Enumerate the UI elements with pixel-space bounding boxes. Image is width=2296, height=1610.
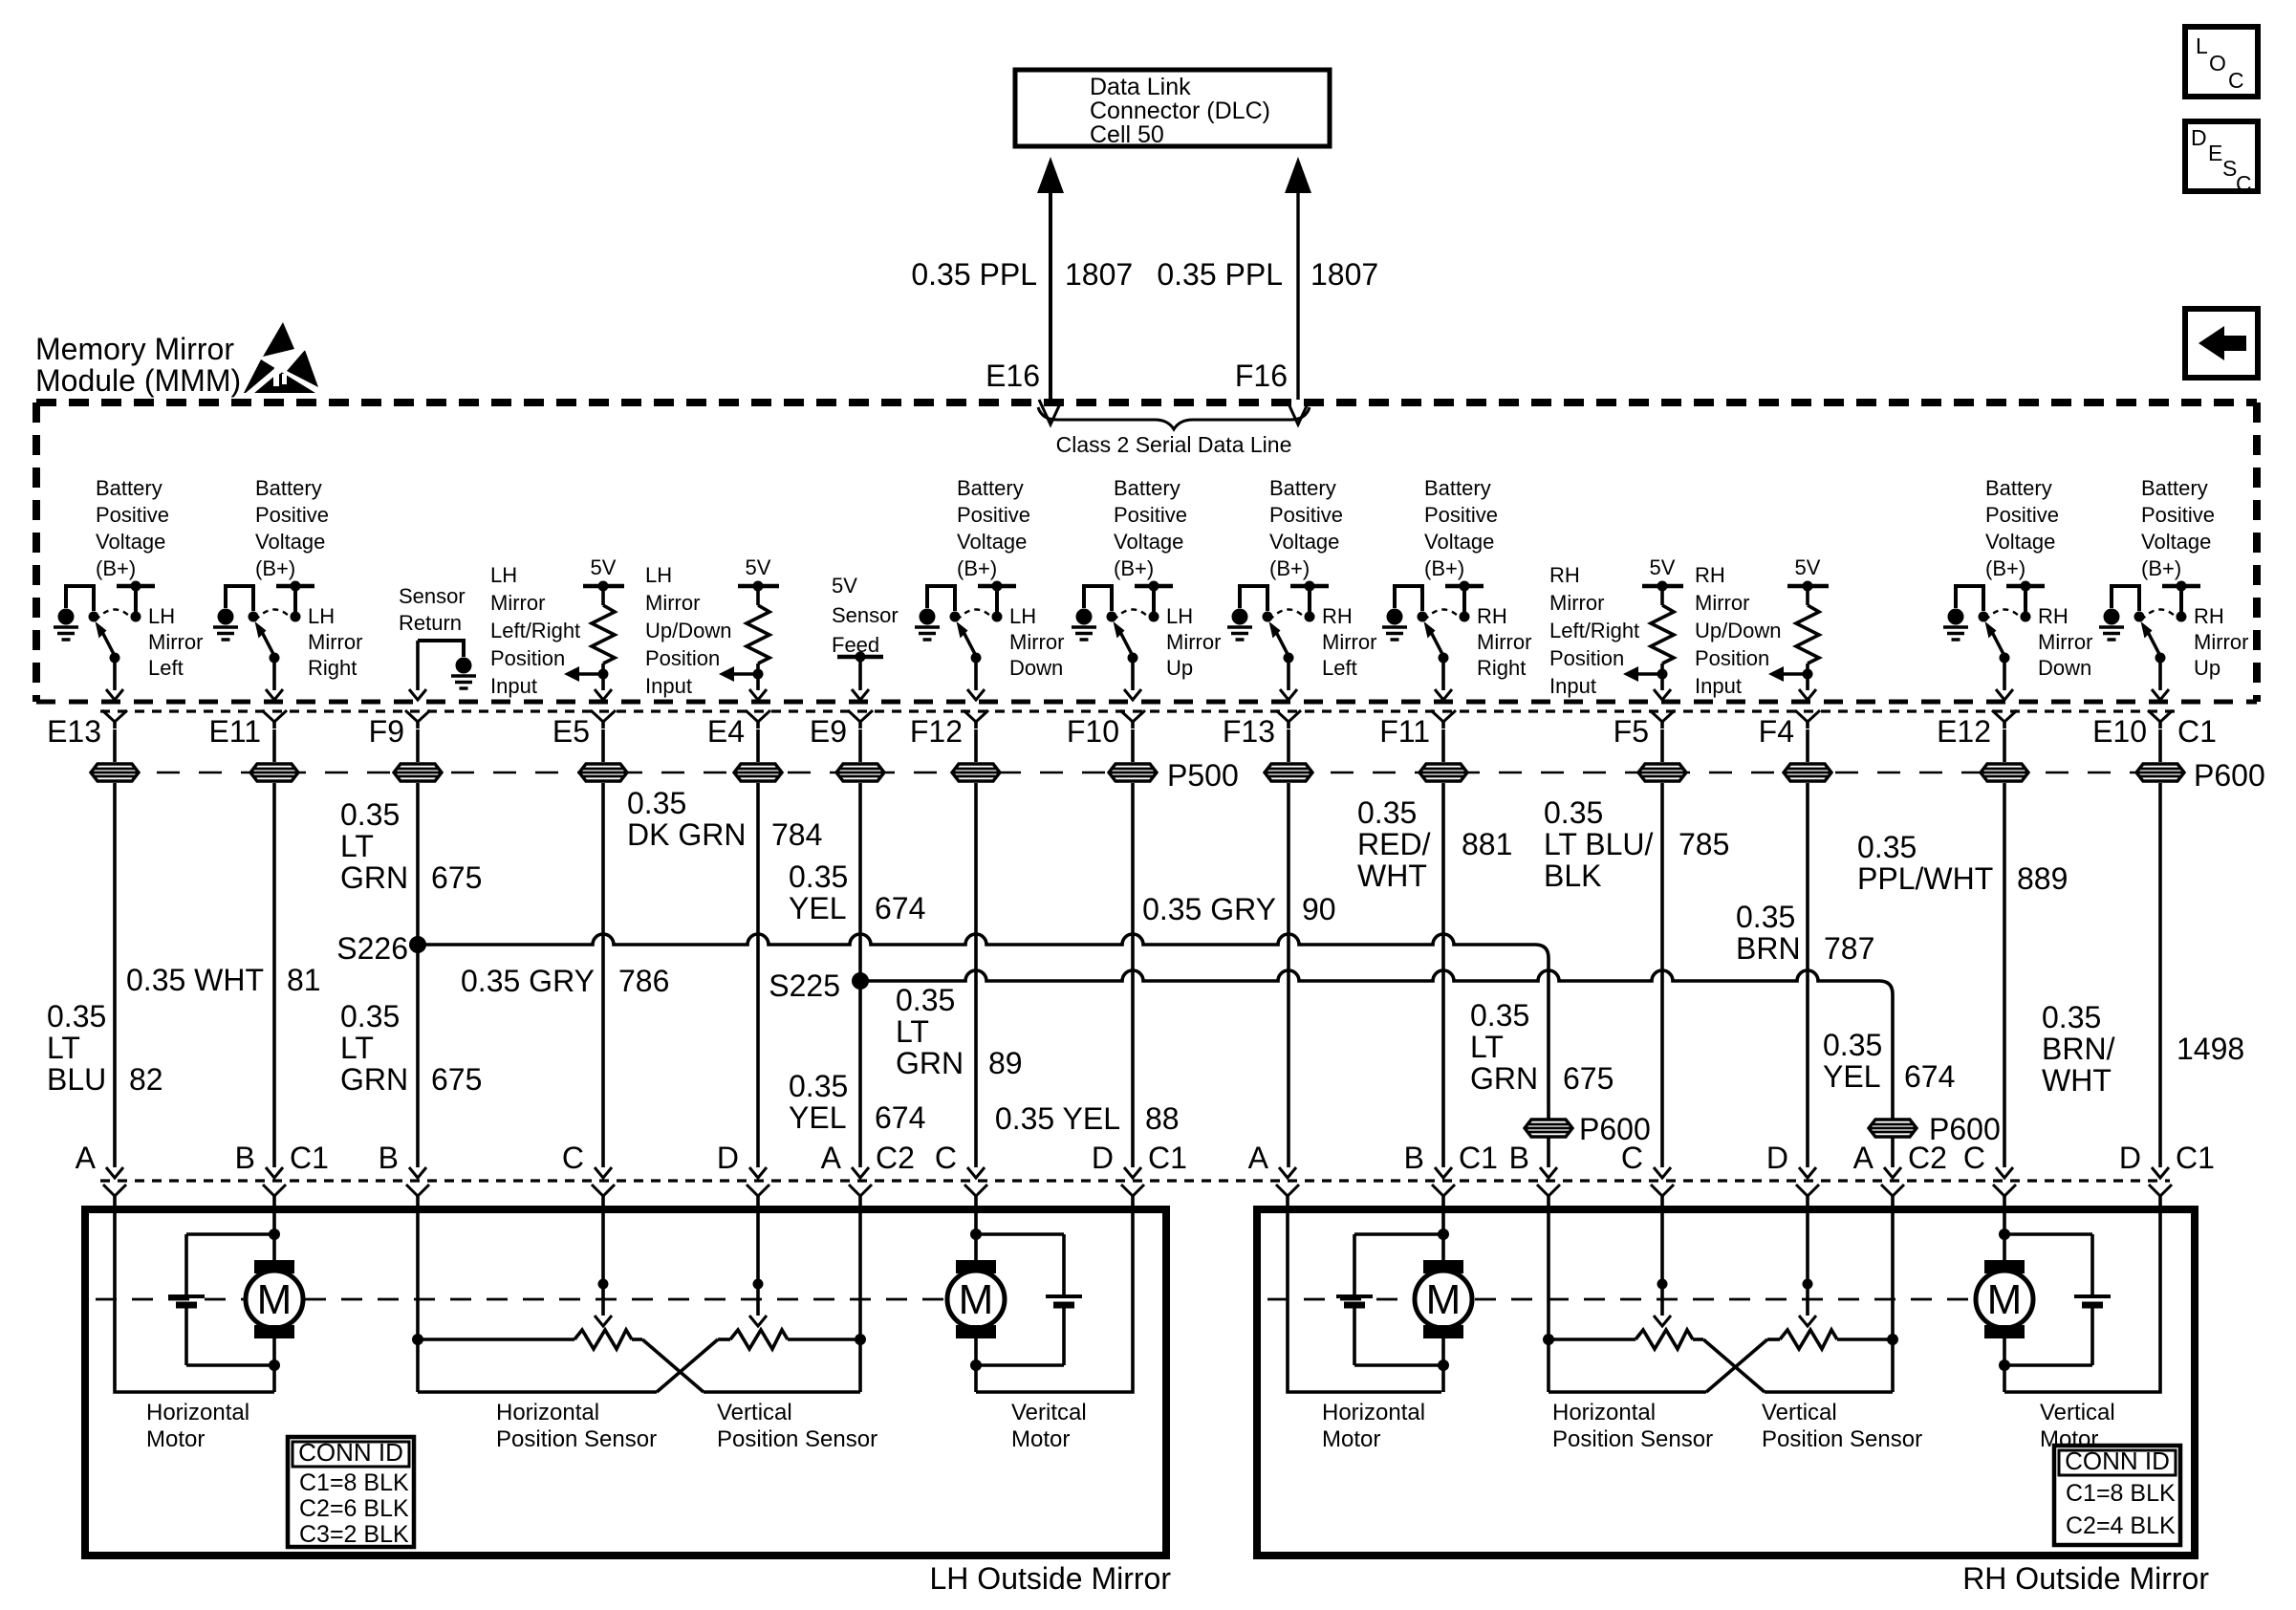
svg-text:0.35 GRY: 0.35 GRY [1142, 892, 1276, 926]
svg-text:WHT: WHT [1357, 859, 1427, 893]
svg-text:82: 82 [129, 1062, 163, 1097]
svg-text:LT: LT [340, 829, 374, 863]
svg-text:Class 2 Serial Data Line: Class 2 Serial Data Line [1056, 432, 1292, 457]
svg-text:L: L [2196, 33, 2208, 58]
svg-text:Input: Input [1695, 674, 1742, 698]
svg-text:Voltage: Voltage [1114, 530, 1183, 554]
splice S226 [409, 936, 426, 953]
svg-text:RH: RH [1322, 604, 1353, 628]
svg-text:Positive: Positive [1114, 503, 1187, 527]
inline connector at F13 [1287, 729, 1290, 762]
svg-text:D: D [2191, 125, 2207, 150]
LH vertical position sensor wiper (D) [756, 1210, 760, 1316]
wire E9 down (0.35 YEL 674) [858, 783, 862, 1167]
svg-text:F5: F5 [1614, 714, 1649, 749]
svg-text:Mirror: Mirror [1477, 630, 1531, 654]
svg-text:E11: E11 [208, 714, 261, 749]
wire F10 down (0.35 YEL 88) [1131, 783, 1135, 1167]
svg-text:5V: 5V [1795, 555, 1821, 579]
svg-text:Mirror: Mirror [2194, 630, 2248, 654]
svg-text:BRN: BRN [1736, 931, 1801, 966]
svg-text:LT: LT [47, 1031, 80, 1065]
svg-text:B: B [1404, 1141, 1424, 1175]
mirror pin B/C1 [266, 1167, 283, 1178]
LH horizontal motor wire B/C1 [272, 1210, 276, 1260]
svg-text:LH: LH [1166, 604, 1193, 628]
svg-text:5V: 5V [832, 574, 857, 598]
svg-text:Battery: Battery [1114, 476, 1180, 500]
inline connector at E5 [601, 729, 605, 762]
Class 2 Serial Data Line brace [1038, 407, 1310, 429]
svg-text:Position: Position [1549, 646, 1624, 670]
svg-text:Motor: Motor [1322, 1426, 1380, 1452]
svg-text:Positive: Positive [1424, 503, 1498, 527]
svg-text:D: D [1092, 1141, 1114, 1175]
svg-text:Battery: Battery [1424, 476, 1491, 500]
svg-text:Mirror: Mirror [1322, 630, 1376, 654]
svg-text:0.35 GRY: 0.35 GRY [461, 964, 595, 998]
svg-text:Vertical: Vertical [717, 1400, 792, 1425]
pin E11 fork [262, 710, 287, 722]
svg-text:YEL: YEL [1823, 1059, 1880, 1094]
svg-text:F9: F9 [369, 714, 404, 749]
svg-text:Motor: Motor [1011, 1426, 1070, 1452]
RH horizontal motor wire B/C1 [1441, 1210, 1445, 1260]
svg-text:Position Sensor: Position Sensor [496, 1426, 657, 1452]
RH vertical motor [1984, 1260, 2025, 1273]
pin E9 fork [848, 710, 873, 722]
svg-text:Vertical: Vertical [2040, 1400, 2115, 1425]
svg-text:LT BLU/: LT BLU/ [1544, 827, 1654, 861]
LH vertical motor wire C [974, 1210, 978, 1260]
svg-text:787: 787 [1824, 931, 1874, 966]
svg-text:C: C [2228, 68, 2244, 93]
mirror pin C [1654, 1167, 1671, 1178]
svg-text:E: E [2208, 141, 2222, 165]
MMM connector dashed line [100, 709, 2179, 712]
wire F13 down (0.35 GRY 90) [1287, 783, 1290, 1167]
svg-text:CONN ID: CONN ID [298, 1438, 403, 1467]
mirror pin B/C1 [1435, 1167, 1452, 1178]
svg-text:Horizontal: Horizontal [1322, 1400, 1425, 1425]
wire E12 down (0.35 PPL/WHT 889) [2003, 783, 2006, 1167]
svg-text:O: O [2209, 51, 2226, 76]
LOC icon box [2185, 27, 2258, 97]
svg-text:Input: Input [1549, 674, 1596, 698]
svg-text:C3=2 BLK: C3=2 BLK [299, 1521, 409, 1548]
svg-text:A: A [76, 1141, 97, 1175]
inline connector at F12 [974, 729, 978, 762]
svg-text:LH: LH [1009, 604, 1036, 628]
svg-text:0.35: 0.35 [1857, 830, 1917, 864]
svg-text:Left: Left [148, 656, 184, 680]
P600 connector on 675 wire [1525, 1120, 1572, 1137]
LH box dashed centerline [96, 1298, 244, 1301]
svg-text:Up: Up [1166, 656, 1193, 680]
wire E10 down (0.35 BRN/WHT 1498) [2158, 783, 2162, 1167]
svg-text:P600: P600 [2194, 758, 2265, 793]
svg-text:E13: E13 [47, 714, 101, 749]
svg-text:Voltage: Voltage [2141, 530, 2211, 554]
LH vertical motor [956, 1260, 996, 1273]
svg-text:E4: E4 [707, 714, 745, 749]
svg-text:0.35 PPL: 0.35 PPL [1157, 257, 1283, 292]
svg-text:Positive: Positive [957, 503, 1030, 527]
svg-text:Voltage: Voltage [957, 530, 1027, 554]
svg-text:(B+): (B+) [1985, 556, 2025, 580]
inline connector at F9 [416, 729, 420, 762]
svg-text:674: 674 [875, 1100, 925, 1135]
LH horizontal motor [254, 1260, 294, 1273]
svg-text:P500: P500 [1167, 758, 1239, 793]
svg-text:Memory Mirror: Memory Mirror [35, 332, 234, 366]
svg-text:(B+): (B+) [2141, 556, 2181, 580]
inline connector at E11 [272, 729, 276, 762]
wire 675 to RH mirror B (P600) [1547, 1109, 1550, 1167]
svg-text:RH: RH [1549, 563, 1580, 587]
RH CONN ID table [2054, 1446, 2180, 1545]
svg-text:M: M [959, 1276, 994, 1323]
inline connector at F11 [1441, 729, 1445, 762]
svg-text:0.35: 0.35 [1357, 795, 1417, 830]
RH horizontal position sensor wiper (C) [1660, 1210, 1664, 1316]
svg-text:Veritcal: Veritcal [1011, 1400, 1087, 1425]
svg-text:LT: LT [340, 1031, 374, 1065]
svg-text:C2=6 BLK: C2=6 BLK [299, 1495, 409, 1522]
svg-text:E5: E5 [552, 714, 590, 749]
svg-text:C1: C1 [2177, 714, 2217, 749]
svg-text:Up/Down: Up/Down [645, 619, 731, 642]
wire F9 down (0.35 LT GRN 675) [416, 783, 420, 1167]
svg-text:0.35: 0.35 [627, 786, 686, 820]
LH vertical motor circuit wire D [976, 1210, 1133, 1392]
svg-text:C2: C2 [876, 1141, 915, 1175]
RH horizontal motor battery [1336, 1295, 1373, 1298]
svg-text:E9: E9 [810, 714, 847, 749]
svg-text:0.35: 0.35 [1823, 1028, 1882, 1062]
svg-text:Left/Right: Left/Right [1549, 619, 1639, 642]
svg-text:LH Outside Mirror: LH Outside Mirror [930, 1561, 1172, 1596]
ESD symbol [263, 322, 294, 357]
svg-text:Mirror: Mirror [148, 630, 203, 654]
RH Outside Mirror box [1257, 1209, 2195, 1556]
LH Outside Mirror box [85, 1209, 1166, 1556]
svg-text:0.35 PPL: 0.35 PPL [911, 257, 1037, 292]
svg-text:RH Outside Mirror: RH Outside Mirror [1962, 1561, 2209, 1596]
pin E10 fork [2148, 710, 2173, 722]
wire E4 down (0.35 DK GRN 784) [756, 783, 760, 1167]
pin F12 fork [964, 710, 988, 722]
RH vertical motor circuit wire D/C1 [2004, 1210, 2160, 1392]
mirror pin B [409, 1167, 426, 1178]
svg-text:LH: LH [645, 563, 672, 587]
RH horizontal position sensor wire B [1547, 1210, 1550, 1392]
pin F9 fork [405, 710, 430, 722]
LH sensors baseline wiring [418, 1338, 574, 1341]
S226 bus wire to 675 [418, 934, 1549, 1109]
svg-text:RH: RH [1695, 563, 1725, 587]
svg-text:S226: S226 [336, 931, 408, 966]
svg-text:81: 81 [287, 963, 321, 997]
wire F11 down (0.35 RED/WHT 881) [1441, 783, 1445, 1167]
svg-text:GRN: GRN [896, 1046, 964, 1080]
svg-text:Motor: Motor [146, 1426, 205, 1452]
svg-text:Positive: Positive [1985, 503, 2059, 527]
svg-text:1498: 1498 [2177, 1032, 2244, 1066]
svg-text:F12: F12 [910, 714, 963, 749]
svg-text:Horizontal: Horizontal [496, 1400, 599, 1425]
inline connector at F5 [1660, 729, 1664, 762]
svg-text:E16: E16 [986, 359, 1040, 393]
P500/P600 connector dashed line [115, 772, 1133, 774]
svg-text:Data Link: Data Link [1090, 74, 1191, 100]
mirror pin A/C2 [852, 1167, 869, 1178]
svg-text:1807: 1807 [1065, 257, 1133, 292]
svg-text:Battery: Battery [2141, 476, 2208, 500]
pin F5 fork [1650, 710, 1675, 722]
svg-text:LH: LH [490, 563, 517, 587]
svg-text:Positive: Positive [255, 503, 329, 527]
LH CONN ID table [288, 1437, 414, 1547]
svg-text:C: C [1963, 1141, 1985, 1175]
wire 674 to RH mirror A C2 (P600) [1891, 1109, 1895, 1167]
svg-text:0.35: 0.35 [1544, 795, 1603, 830]
inline connector at F4 [1806, 729, 1809, 762]
svg-text:Mirror: Mirror [2038, 630, 2092, 654]
svg-text:Battery: Battery [957, 476, 1024, 500]
svg-text:88: 88 [1145, 1101, 1180, 1136]
LH vertical motor battery [1046, 1295, 1082, 1298]
wire E5 down (0.35 GRY 786) [601, 783, 605, 1167]
svg-text:C2=4 BLK: C2=4 BLK [2066, 1512, 2176, 1539]
svg-text:675: 675 [431, 1062, 482, 1097]
svg-text:Horizontal: Horizontal [1552, 1400, 1656, 1425]
svg-text:PPL/WHT: PPL/WHT [1857, 861, 1993, 896]
svg-text:BLU: BLU [47, 1062, 106, 1097]
svg-text:675: 675 [1563, 1061, 1614, 1096]
wire F5 down (0.35 LT BLU/BLK 785) [1660, 783, 1664, 1167]
svg-text:0.35: 0.35 [896, 983, 955, 1017]
mirror pin C [1996, 1167, 2013, 1178]
svg-text:Battery: Battery [1985, 476, 2052, 500]
svg-text:Mirror: Mirror [1695, 591, 1749, 615]
svg-text:0.35: 0.35 [789, 1069, 848, 1103]
mirror pin D/C1 [1124, 1167, 1141, 1178]
svg-text:Mirror: Mirror [1166, 630, 1221, 654]
svg-text:(B+): (B+) [1424, 556, 1464, 580]
svg-text:RH: RH [2194, 604, 2224, 628]
RH vertical position sensor [1780, 1330, 1837, 1349]
svg-text:RH: RH [1477, 604, 1507, 628]
pin F4 fork [1795, 710, 1820, 722]
svg-text:Vertical: Vertical [1762, 1400, 1837, 1425]
svg-text:LT: LT [1470, 1030, 1504, 1064]
svg-text:785: 785 [1679, 827, 1729, 861]
svg-text:C1: C1 [2176, 1141, 2215, 1175]
svg-text:(B+): (B+) [96, 556, 136, 580]
svg-text:Battery: Battery [255, 476, 322, 500]
svg-text:D: D [2119, 1141, 2141, 1175]
svg-text:D: D [717, 1141, 739, 1175]
splice S225 [852, 972, 869, 990]
inline connector at F10 [1131, 729, 1135, 762]
svg-text:C1=8 BLK: C1=8 BLK [2066, 1480, 2176, 1507]
mirror pin A/C2 [1884, 1167, 1901, 1178]
svg-text:Module (MMM): Module (MMM) [35, 363, 241, 398]
svg-text:Mirror: Mirror [1549, 591, 1604, 615]
svg-text:(B+): (B+) [1114, 556, 1154, 580]
svg-text:Right: Right [1477, 656, 1526, 680]
svg-text:Sensor: Sensor [399, 584, 466, 608]
svg-text:Connector (DLC): Connector (DLC) [1090, 98, 1270, 124]
svg-text:A: A [1853, 1141, 1874, 1175]
svg-text:LH: LH [308, 604, 335, 628]
mirror pin D [1799, 1167, 1816, 1178]
svg-text:786: 786 [618, 964, 669, 998]
svg-text:F11: F11 [1379, 714, 1430, 749]
svg-text:Up: Up [2194, 656, 2220, 680]
svg-text:C1: C1 [290, 1141, 329, 1175]
svg-text:Position: Position [490, 646, 565, 670]
svg-text:Position Sensor: Position Sensor [717, 1426, 877, 1452]
RH vertical position sensor wiper (D) [1806, 1210, 1809, 1316]
svg-text:C1: C1 [1148, 1141, 1187, 1175]
svg-text:BLK: BLK [1544, 859, 1601, 893]
svg-text:Up/Down: Up/Down [1695, 619, 1781, 642]
svg-text:0.35: 0.35 [1470, 998, 1529, 1033]
svg-text:Position: Position [1695, 646, 1769, 670]
svg-text:Voltage: Voltage [1269, 530, 1339, 554]
inline connector at E9 [858, 729, 862, 762]
svg-text:Input: Input [645, 674, 692, 698]
svg-text:5V: 5V [746, 555, 771, 579]
LH horizontal position sensor wiper (C) [601, 1210, 605, 1316]
svg-text:S225: S225 [769, 968, 840, 1003]
svg-text:Mirror: Mirror [1009, 630, 1064, 654]
svg-text:Positive: Positive [96, 503, 169, 527]
mirror pin C [967, 1167, 985, 1178]
pin E13 fork [102, 710, 127, 722]
svg-text:DK GRN: DK GRN [627, 817, 746, 852]
svg-text:Battery: Battery [96, 476, 162, 500]
pin F10 fork [1120, 710, 1145, 722]
svg-text:C: C [1621, 1141, 1643, 1175]
svg-text:1807: 1807 [1310, 257, 1378, 292]
svg-text:Down: Down [2038, 656, 2091, 680]
wire F4 down (0.35 BRN 787) [1806, 783, 1809, 1167]
svg-text:Positive: Positive [1269, 503, 1343, 527]
svg-text:0.35: 0.35 [2042, 1000, 2101, 1034]
svg-text:(B+): (B+) [255, 556, 295, 580]
svg-text:Left: Left [1322, 656, 1357, 680]
inline connector at E10 [2158, 729, 2162, 762]
svg-text:0.35: 0.35 [47, 999, 106, 1033]
pin E5 fork [591, 710, 616, 722]
wire F16 to DLC [1296, 189, 1299, 400]
mirror pin B [1540, 1167, 1557, 1178]
wire F12 down (0.35 LT GRN 89) [974, 783, 978, 1167]
MMM module dashed border [36, 399, 2257, 406]
wire E16 to DLC [1049, 189, 1052, 400]
svg-text:784: 784 [771, 817, 822, 852]
svg-text:Position: Position [645, 646, 720, 670]
svg-text:Feed: Feed [832, 633, 879, 657]
svg-text:Voltage: Voltage [1424, 530, 1494, 554]
svg-text:Mirror: Mirror [308, 630, 362, 654]
svg-text:0.35 YEL: 0.35 YEL [995, 1101, 1120, 1136]
svg-text:CONN ID: CONN ID [2065, 1447, 2170, 1475]
svg-text:675: 675 [431, 860, 482, 895]
svg-text:B: B [379, 1141, 399, 1175]
DLC box - Data Link Connector [1015, 70, 1330, 146]
svg-text:WHT: WHT [2042, 1063, 2112, 1098]
svg-text:Voltage: Voltage [255, 530, 325, 554]
pin F11 fork [1431, 710, 1456, 722]
inline connector at E4 [756, 729, 760, 762]
RH vertical motor wire C [2003, 1210, 2006, 1260]
svg-text:RH: RH [2038, 604, 2069, 628]
svg-text:Sensor: Sensor [832, 603, 899, 627]
svg-text:Cell 50: Cell 50 [1090, 121, 1164, 148]
svg-text:BRN/: BRN/ [2042, 1032, 2115, 1066]
pin E12 fork [1992, 710, 2017, 722]
svg-text:RED/: RED/ [1357, 827, 1431, 861]
mirror pin D [749, 1167, 767, 1178]
svg-text:Voltage: Voltage [96, 530, 165, 554]
svg-text:B: B [1509, 1141, 1529, 1175]
svg-text:881: 881 [1462, 827, 1512, 861]
svg-text:B: B [235, 1141, 255, 1175]
DESC icon box [2185, 121, 2258, 191]
svg-text:Return: Return [399, 611, 462, 635]
mirror pin D/C1 [2152, 1167, 2169, 1178]
svg-text:LT: LT [896, 1014, 929, 1049]
RH sensors baseline wiring [1549, 1338, 1635, 1341]
mirror pin A [1279, 1167, 1296, 1178]
svg-text:5V: 5V [591, 555, 617, 579]
svg-text:F4: F4 [1759, 714, 1794, 749]
svg-text:A: A [821, 1141, 842, 1175]
svg-text:C2: C2 [1908, 1141, 1947, 1175]
svg-text:D: D [1766, 1141, 1788, 1175]
svg-text:F10: F10 [1067, 714, 1119, 749]
svg-text:C: C [935, 1141, 957, 1175]
svg-text:YEL: YEL [789, 1100, 846, 1135]
svg-text:M: M [1426, 1276, 1462, 1323]
LH horizontal motor battery [168, 1295, 205, 1298]
wire E11 down (0.35 WHT 81) [272, 783, 276, 1167]
svg-text:0.35: 0.35 [1736, 900, 1795, 934]
inline connector at E12 [2003, 729, 2006, 762]
pin F13 fork [1276, 710, 1301, 722]
svg-text:Right: Right [308, 656, 357, 680]
svg-text:GRN: GRN [1470, 1061, 1538, 1096]
svg-text:90: 90 [1302, 892, 1336, 926]
LH horizontal position sensor wire B [416, 1210, 420, 1392]
svg-text:89: 89 [988, 1046, 1023, 1080]
svg-text:E12: E12 [1937, 714, 1991, 749]
S225 bus wire to 674 [860, 970, 1893, 1109]
svg-text:Positive: Positive [2141, 503, 2215, 527]
mirror connector dashed line [100, 1179, 2170, 1182]
RH horizontal motor [1423, 1260, 1463, 1273]
svg-text:C: C [562, 1141, 584, 1175]
svg-text:YEL: YEL [789, 891, 846, 925]
svg-text:F16: F16 [1235, 359, 1288, 393]
svg-text:Down: Down [1009, 656, 1063, 680]
svg-text:Voltage: Voltage [1985, 530, 2055, 554]
svg-text:C: C [2236, 171, 2252, 196]
